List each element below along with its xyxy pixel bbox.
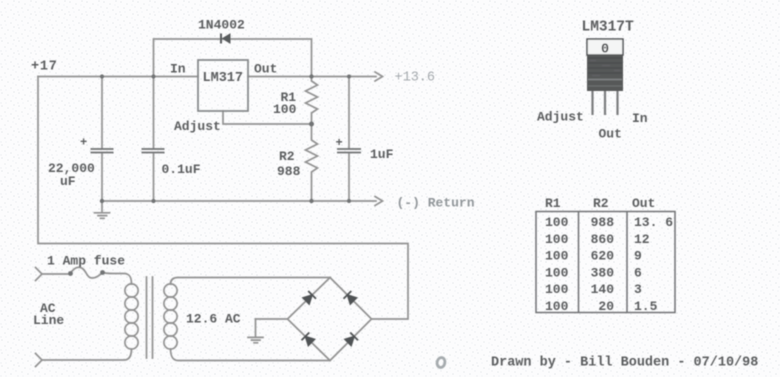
bridge diode D3 (top-right arm): [344, 291, 357, 304]
svg-text:100: 100: [545, 299, 569, 314]
junction R2/return rail: [309, 199, 313, 203]
svg-text:140: 140: [591, 282, 615, 297]
svg-text:3: 3: [634, 282, 642, 297]
LM317T package body: [587, 55, 623, 91]
LM317T package legs: [593, 91, 618, 115]
svg-text:12.6 AC: 12.6 AC: [186, 312, 241, 327]
svg-text:0.1uF: 0.1uF: [162, 162, 201, 177]
transformer T1 primary winding: [125, 284, 138, 297]
table frame: [536, 212, 675, 313]
wire primary bottom to AC line: [42, 349, 132, 360]
svg-text:(-) Return: (-) Return: [397, 196, 475, 211]
svg-text:380: 380: [591, 265, 615, 280]
svg-text:6: 6: [634, 265, 642, 280]
svg-text:LM317T: LM317T: [582, 20, 635, 36]
svg-text:In: In: [632, 111, 648, 126]
junction C1/rail: [100, 74, 104, 78]
wire secondary top to bridge: [171, 278, 331, 285]
wire bridge left corner to ground: [256, 318, 288, 320]
ground at 22000uF: [95, 201, 110, 218]
capacitor C1 22000uF plates: [91, 149, 114, 153]
transformer T1 core: [147, 277, 153, 358]
wire fuse to transformer primary: [103, 273, 132, 285]
resistor R1 zigzag: [306, 77, 318, 125]
junction C3/rail: [347, 75, 351, 79]
wire 22000uF capacitor branch top: [101, 77, 103, 149]
wire 1uF capacitor branch bottom: [348, 154, 350, 201]
wire output rail from Out pin: [248, 76, 376, 78]
junction C2/return rail: [151, 199, 155, 203]
wire 1uF capacitor branch top: [348, 77, 350, 149]
svg-text:Adjust: Adjust: [174, 119, 221, 134]
AC line bottom terminal chevron: [36, 354, 43, 367]
svg-text:LM317: LM317: [203, 71, 244, 86]
fuse terminal dot right: [100, 270, 105, 275]
svg-text:Out: Out: [254, 62, 277, 77]
junction adjust/R1/R2: [309, 122, 314, 127]
resistor R2 zigzag: [306, 124, 318, 201]
wire bridge+ to rail (left vertical, bottom run, down to bridge right corner): [38, 77, 408, 320]
node +17 input rail wire: [38, 76, 198, 78]
svg-text:100: 100: [545, 232, 569, 247]
svg-text:20: 20: [598, 299, 614, 314]
stray mark 0: [436, 357, 446, 368]
wire AC top to fuse: [42, 273, 70, 275]
svg-text:100: 100: [545, 265, 569, 280]
junction R1/rail: [309, 74, 313, 78]
svg-text:In: In: [170, 62, 186, 77]
LM317T package tab: [587, 39, 623, 55]
svg-text:100: 100: [545, 215, 569, 230]
wire 0.1uF capacitor branch top: [153, 77, 155, 149]
svg-text:uF: uF: [60, 174, 76, 189]
bridge rectifier diamond: [288, 278, 372, 361]
svg-text:1N4002: 1N4002: [198, 18, 245, 33]
wire diode loop (over LM317): [154, 39, 312, 77]
wire 0.1uF capacitor branch bottom: [153, 154, 155, 201]
capacitor C3 1uF plates: [337, 149, 361, 153]
wire 22000uF capacitor branch bottom: [101, 154, 103, 201]
svg-text:1.5: 1.5: [634, 299, 658, 314]
svg-text:R2: R2: [593, 196, 609, 211]
svg-text:+13.6: +13.6: [395, 71, 436, 86]
svg-text:Adjust: Adjust: [537, 110, 584, 125]
transformer T1 secondary winding: [164, 284, 177, 297]
svg-text:988: 988: [591, 215, 615, 230]
svg-text:+: +: [80, 136, 87, 150]
bridge diode D2 (top-left arm): [303, 291, 316, 304]
output arrowhead: [375, 72, 383, 81]
svg-text:Drawn by - Bill Bouden - 07/10: Drawn by - Bill Bouden - 07/10/98: [491, 356, 758, 371]
svg-text:100: 100: [545, 282, 569, 297]
svg-text:1 Amp fuse: 1 Amp fuse: [47, 254, 125, 269]
svg-text:12: 12: [634, 232, 650, 247]
svg-text:1uF: 1uF: [370, 147, 394, 162]
svg-text:860: 860: [591, 232, 615, 247]
svg-text:+: +: [336, 136, 343, 150]
bridge diode D5 (bottom-right arm): [345, 333, 358, 346]
return arrowhead: [375, 197, 383, 206]
wire return rail: [102, 200, 376, 202]
svg-text:R2: R2: [279, 149, 295, 164]
fuse F1 body: [70, 267, 103, 278]
fuse terminal dot left: [68, 271, 73, 276]
svg-text:9: 9: [634, 249, 642, 264]
svg-text:R1: R1: [545, 196, 561, 211]
ground at bridge: [248, 319, 263, 343]
svg-text:Out: Out: [599, 127, 622, 142]
svg-text:620: 620: [591, 249, 615, 264]
diode D1 1N4002 symbol: [221, 34, 230, 44]
svg-text:Line: Line: [33, 313, 64, 328]
junction C2/diode-loop/rail: [151, 74, 155, 78]
regulator U1 LM317 box: [198, 60, 248, 111]
wire secondary bottom to bridge: [171, 349, 331, 361]
AC line top terminal chevron: [36, 268, 43, 281]
svg-text:13. 6: 13. 6: [634, 215, 673, 230]
table column dividers: [579, 212, 628, 313]
junction C3/return rail: [347, 199, 351, 203]
svg-text:Out: Out: [632, 196, 655, 211]
capacitor C2 0.1uF plates: [142, 149, 165, 153]
junction C1/return rail: [100, 199, 104, 203]
svg-text:+17: +17: [31, 60, 58, 75]
svg-text:100: 100: [273, 102, 297, 117]
svg-text:988: 988: [277, 164, 301, 179]
bridge diode D4 (bottom-left arm): [302, 333, 315, 346]
svg-text:100: 100: [545, 249, 569, 264]
wire adjust pin to R1/R2 node: [223, 111, 312, 124]
